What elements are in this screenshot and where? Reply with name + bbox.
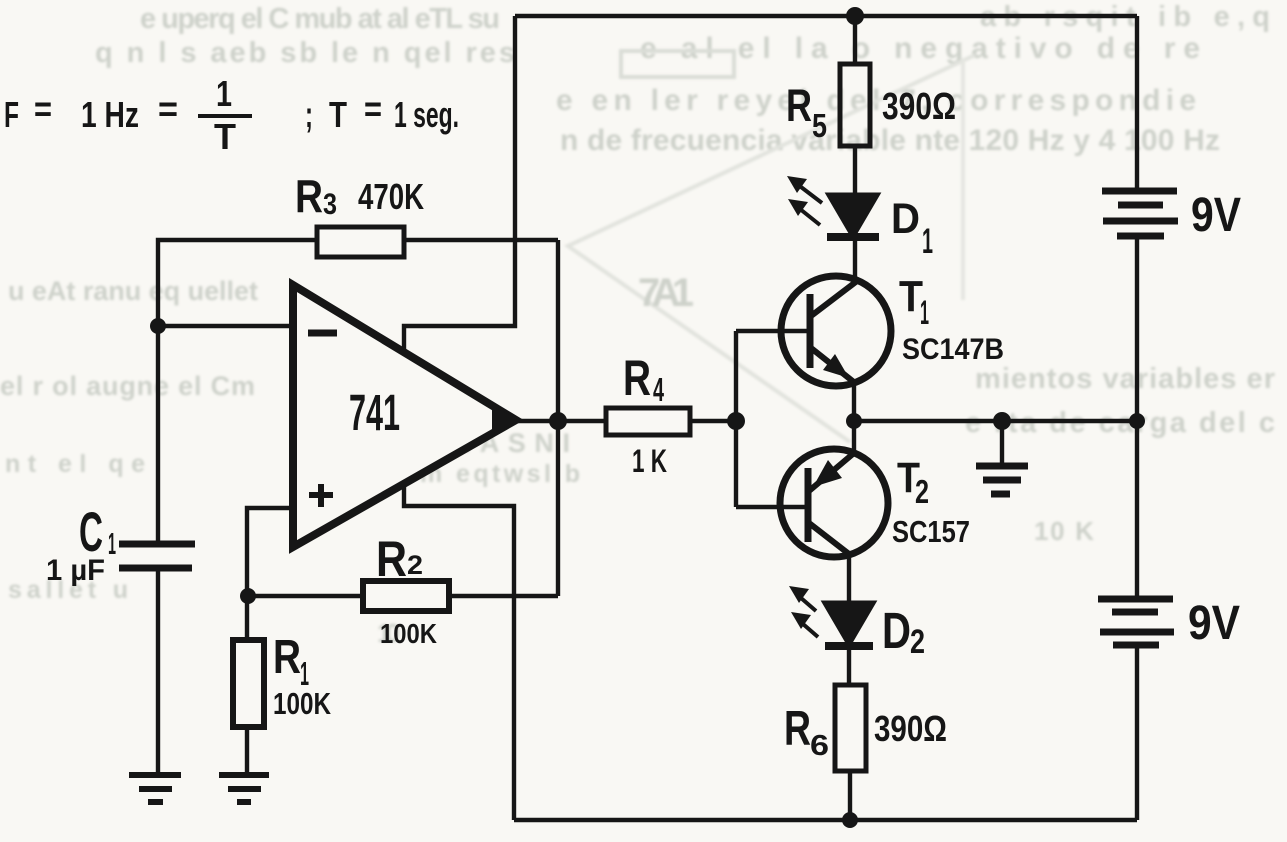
wire inverting input <box>158 324 293 328</box>
svg-text:7A1: 7A1 <box>638 271 694 315</box>
svg-text:1: 1 <box>922 222 933 261</box>
node top rail to R5 <box>846 7 864 25</box>
node emitters <box>846 413 862 429</box>
svg-text:1: 1 <box>108 526 116 561</box>
ground under R1 <box>219 775 269 802</box>
resistor R5 <box>840 64 870 146</box>
capacitor C1 <box>119 544 195 568</box>
wire R6 to bottom rail <box>848 771 852 820</box>
svg-text:=: = <box>158 88 178 129</box>
svg-text:R: R <box>786 80 812 131</box>
wire T1 base <box>736 329 808 333</box>
svg-text:9V: 9V <box>1188 597 1240 650</box>
svg-text:4: 4 <box>653 371 664 408</box>
wire bottom rail <box>514 818 1137 822</box>
svg-text:mientos variables er: mientos variables er <box>975 363 1275 395</box>
minus sign <box>308 330 337 337</box>
wire bases column <box>734 331 738 507</box>
svg-text:=: = <box>34 88 52 129</box>
LED D2 <box>825 603 873 646</box>
svg-text:1: 1 <box>920 294 929 332</box>
wire R5 top <box>853 16 857 64</box>
LED D1 <box>827 195 879 237</box>
svg-text:SC147B: SC147B <box>902 333 1004 366</box>
svg-text:2: 2 <box>910 623 925 661</box>
wire top rail <box>515 14 1137 18</box>
svg-text:el r ol augne el Cm: el r ol augne el Cm <box>0 371 255 401</box>
svg-text:100K: 100K <box>380 618 437 649</box>
svg-text:1: 1 <box>216 73 232 114</box>
battery B2 wires <box>1135 421 1139 599</box>
plus sign <box>309 492 333 498</box>
node A inverting input <box>150 318 166 334</box>
svg-text:1 Hz: 1 Hz <box>81 94 139 135</box>
svg-text:T: T <box>329 94 347 135</box>
wire R1 to ground <box>245 727 249 774</box>
wire V+ supply from top rail to op-amp <box>404 16 515 352</box>
node output <box>549 412 567 430</box>
svg-text:100K: 100K <box>273 686 331 721</box>
svg-text:R: R <box>784 702 811 756</box>
battery B2 9V <box>1098 599 1174 645</box>
wire ground stub <box>1000 421 1004 463</box>
wire T2 emitter to rail <box>852 421 856 453</box>
svg-text:T: T <box>214 116 236 157</box>
svg-text:R: R <box>273 631 301 684</box>
svg-text:e uperq el C mub at al eTL s: e uperq el C mub at al eTL su <box>140 3 500 35</box>
ground mid <box>976 466 1028 494</box>
svg-text:390Ω: 390Ω <box>874 708 947 749</box>
svg-text:470K: 470K <box>358 176 424 217</box>
svg-text:;: ; <box>305 94 313 135</box>
svg-text:2: 2 <box>915 473 929 510</box>
resistor R3 <box>317 227 404 257</box>
wire V- supply from op-amp to bottom rail <box>404 483 514 820</box>
wire output column (R3 to R2 feedback) <box>556 240 560 596</box>
svg-text:1 µF: 1 µF <box>46 554 105 587</box>
node bottom rail to R6 <box>842 812 858 828</box>
svg-text:2: 2 <box>407 550 423 580</box>
D2 light arrows <box>789 586 818 637</box>
svg-text:6: 6 <box>810 730 829 762</box>
svg-text:=: = <box>364 88 382 129</box>
wire non-inverting input <box>247 508 293 641</box>
D1 light arrows <box>787 176 822 225</box>
ground under C1 <box>129 775 181 802</box>
wire R2 right to output column <box>450 594 558 598</box>
battery B1 9V <box>1102 191 1178 236</box>
svg-text:10 K: 10 K <box>1034 516 1094 546</box>
node right rail <box>1129 413 1145 429</box>
battery B1 wires <box>1135 16 1139 188</box>
svg-text:390Ω: 390Ω <box>882 86 956 128</box>
svg-text:D: D <box>882 602 911 659</box>
wire op-amp output to R4 <box>514 419 606 423</box>
svg-text:1 seg.: 1 seg. <box>394 94 459 135</box>
formula F = 1 Hz = 1/T ; T = 1 seg. <box>4 73 459 157</box>
svg-text:u eAt ranu eq uellet: u eAt ranu eq uellet <box>8 276 258 306</box>
wire R4 to bases <box>690 419 736 423</box>
wire T2 base <box>736 505 806 509</box>
svg-text:3: 3 <box>323 188 337 221</box>
wire C1 to ground <box>156 568 160 774</box>
svg-text:R: R <box>295 170 323 222</box>
svg-text:741: 741 <box>349 384 400 441</box>
GHOSTS (bleed-through from reverse page) <box>0 1 1275 648</box>
node non-inverting divider <box>240 588 256 604</box>
resistor R6 <box>835 685 866 771</box>
svg-text:R: R <box>376 531 407 587</box>
wire emitter rail <box>854 419 1137 423</box>
wire R2 left <box>247 594 364 598</box>
wire R3 right to output column <box>404 238 558 242</box>
ghost op-amp triangle from reverse <box>568 55 975 442</box>
resistor R1 <box>233 640 264 727</box>
svg-text:1 K: 1 K <box>632 443 667 479</box>
node ground stub <box>993 412 1011 430</box>
svg-text:5: 5 <box>812 107 827 144</box>
wire T2 collector to D2 <box>847 553 851 603</box>
node bases <box>727 412 745 430</box>
svg-text:F: F <box>4 94 19 135</box>
resistor R2 <box>363 581 449 611</box>
op-amp U1 741 triangle <box>293 285 516 547</box>
svg-text:SC157: SC157 <box>892 514 970 549</box>
svg-text:n de frecuencia variable nte 1: n de frecuencia variable nte 120 Hz y 4 … <box>560 124 1220 157</box>
resistor R4 <box>606 408 690 435</box>
svg-text:9V: 9V <box>1191 189 1241 242</box>
transistor Q1 T1 <box>781 276 891 386</box>
svg-text:R: R <box>623 350 651 406</box>
wire R5 to D1 <box>853 146 857 195</box>
wire D2 to R6 <box>847 646 851 685</box>
wire R3 left <box>158 240 317 542</box>
svg-text:D: D <box>891 195 920 243</box>
transistor Q2 T2 <box>780 449 888 557</box>
wire T1 emitter to rail <box>852 382 856 421</box>
wire T1 collector to D1 <box>853 241 857 282</box>
